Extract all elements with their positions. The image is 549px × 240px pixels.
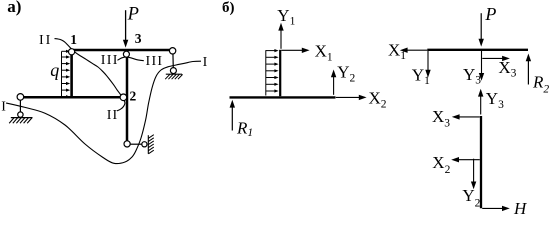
fb1 beam [230,96,336,98]
force P arrow [125,10,127,43]
left support lower hinge [18,112,23,117]
hinge node 3 [123,51,129,57]
axis X1 arrow [281,49,305,51]
distributed load q arrows [62,50,68,52]
axis Y1 arrow [280,28,282,49]
right support lower hinge [170,68,176,74]
left support ground [9,118,32,124]
force X1 arrow fb2 [405,49,428,51]
reaction R2 arrow [527,58,529,84]
svg-text:III: III [101,53,119,68]
svg-text:H: H [513,199,528,216]
fb1 load arrows [266,50,276,52]
force X3 arrow fb2 [482,57,505,59]
svg-text:II: II [39,33,52,48]
force Y3 down arrow [481,51,483,76]
svg-text:II: II [107,108,118,123]
svg-text:3: 3 [135,31,142,46]
svg-text:1: 1 [70,32,77,47]
svg-text:I: I [1,99,6,114]
svg-text:2: 2 [130,89,137,104]
axis X2 arrow [336,96,362,98]
force X3 left arrow [457,116,480,118]
fb1 cut column piece [279,50,281,96]
right support ground [165,74,182,79]
axis Y2 arrow [333,74,335,95]
fb3 column [480,116,482,208]
section line II-II [55,39,125,111]
top beam from node 1 to right support [71,49,173,51]
bottom hinge of right column [124,141,130,147]
reaction R1 arrow [231,105,233,131]
force Y1 arrow fb2 [427,51,429,73]
bottom support wall [148,135,154,154]
svg-text:P: P [484,4,496,24]
left column under node 1 [70,52,73,98]
left support link [19,99,21,113]
reaction H arrow [482,207,505,209]
right support upper hinge [169,48,175,54]
section line I-I [6,61,201,163]
bottom support roller hinge [142,142,147,147]
section line III-III [118,57,144,61]
bottom support link [128,143,143,145]
svg-text:P: P [127,4,139,24]
force Y3 up arrow [480,94,482,115]
right support link [172,52,174,69]
left support upper hinge [17,94,24,101]
force X2 left arrow [456,159,480,161]
svg-text:б): б) [222,0,235,16]
svg-text:q: q [50,60,59,80]
force P arrow fb2 [480,13,482,42]
hinge node 2 [120,94,127,101]
svg-text:I: I [203,55,208,70]
force Y2 down arrow [473,159,475,185]
hinge node 1 [69,49,75,55]
fb2 beam [427,49,528,51]
lower beam from left support to node 2 [20,96,121,99]
svg-text:а): а) [7,0,21,16]
svg-text:III: III [146,54,164,69]
distributed load q boundary line [61,52,63,97]
right column from node 3 to bottom hinge [126,55,129,142]
fb1 load boundary [265,50,267,95]
